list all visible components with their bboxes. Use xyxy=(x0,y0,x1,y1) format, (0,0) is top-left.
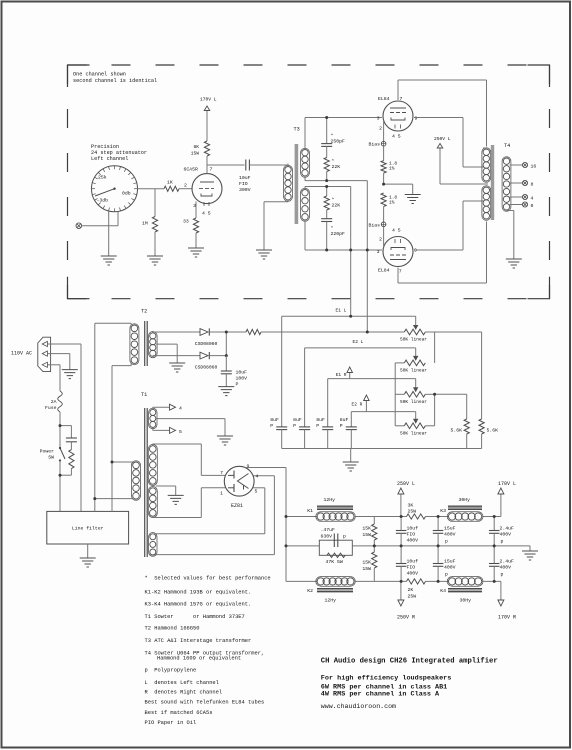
svg-text:15W: 15W xyxy=(362,532,371,538)
svg-text:25W: 25W xyxy=(408,594,417,600)
svg-text:2.4uF: 2.4uF xyxy=(500,559,515,565)
svg-text:16: 16 xyxy=(531,163,537,169)
svg-text:15W: 15W xyxy=(191,151,200,157)
svg-text:400V: 400V xyxy=(444,532,456,538)
svg-text:8uF: 8uF xyxy=(316,417,325,423)
svg-text:25k: 25k xyxy=(98,175,107,181)
svg-text:30Hy: 30Hy xyxy=(459,497,471,503)
svg-text:22K: 22K xyxy=(332,203,341,209)
svg-text:220pF: 220pF xyxy=(331,231,346,237)
svg-text:FIO: FIO xyxy=(407,565,416,571)
svg-text:110V AC: 110V AC xyxy=(11,351,32,357)
svg-text:15uF: 15uF xyxy=(444,526,456,532)
svg-text:2: 2 xyxy=(379,126,382,132)
svg-text:5: 5 xyxy=(255,489,258,495)
svg-text:EZ81: EZ81 xyxy=(231,503,243,509)
svg-text:400V: 400V xyxy=(444,565,456,571)
svg-text:.47uF: .47uF xyxy=(321,527,336,533)
svg-text:Fuse: Fuse xyxy=(45,405,57,411)
svg-text:Bias: Bias xyxy=(368,142,380,148)
svg-text:400V: 400V xyxy=(500,565,512,571)
svg-text:300V: 300V xyxy=(239,187,251,193)
svg-text:For high efficiency loudspeake: For high efficiency loudspeakers xyxy=(321,675,452,683)
svg-text:SW: SW xyxy=(48,455,54,461)
svg-text:P: P xyxy=(270,423,273,429)
svg-text:1: 1 xyxy=(220,491,223,497)
svg-text:p: p xyxy=(501,540,504,545)
svg-text:1%: 1% xyxy=(389,200,395,206)
svg-text:400V: 400V xyxy=(407,538,419,544)
svg-text:K1: K1 xyxy=(307,508,313,514)
svg-text:5.6K: 5.6K xyxy=(450,428,462,434)
svg-text:P: P xyxy=(340,423,343,429)
svg-text:250V L: 250V L xyxy=(434,136,451,142)
svg-text:47K 5W: 47K 5W xyxy=(326,559,343,565)
svg-text:T4: T4 xyxy=(504,143,510,149)
svg-text:4: 4 xyxy=(179,406,182,412)
svg-text:P: P xyxy=(293,423,296,429)
svg-text:E2 L: E2 L xyxy=(353,339,364,345)
svg-text:FIO: FIO xyxy=(407,532,416,538)
svg-text:www.chaudioroon.com: www.chaudioroon.com xyxy=(321,703,396,710)
svg-text:400V: 400V xyxy=(407,571,419,577)
svg-text:33: 33 xyxy=(183,219,189,225)
svg-text:10uF: 10uF xyxy=(239,175,251,181)
svg-text:0: 0 xyxy=(531,203,534,209)
svg-text:250V L: 250V L xyxy=(397,481,415,487)
svg-text:Bias: Bias xyxy=(368,222,380,228)
svg-text:K2: K2 xyxy=(307,588,313,594)
svg-text:*: * xyxy=(332,197,335,203)
svg-text:p: p xyxy=(343,535,346,540)
svg-text:p: p xyxy=(445,573,448,578)
svg-text:T3 ATC A&I Interstage transfor: T3 ATC A&I Interstage transformer xyxy=(145,638,252,644)
svg-text:2: 2 xyxy=(184,183,187,189)
svg-text:8K: 8K xyxy=(193,144,199,150)
svg-text:22K: 22K xyxy=(332,164,341,170)
svg-text:*: * xyxy=(331,226,334,232)
svg-text:630V: 630V xyxy=(321,534,333,540)
svg-text:7: 7 xyxy=(220,470,223,476)
svg-text:Best sound with Telefunken EL8: Best sound with Telefunken EL84 tubes xyxy=(145,699,265,705)
svg-text:4: 4 xyxy=(531,195,534,201)
svg-text:1M: 1M xyxy=(142,221,148,227)
svg-text:10uF: 10uF xyxy=(236,370,248,376)
svg-text:* Selected values for best pe: * Selected values for best performance xyxy=(145,575,271,581)
svg-text:170V L: 170V L xyxy=(200,97,217,103)
svg-text:170V R: 170V R xyxy=(498,615,516,621)
svg-text:2K: 2K xyxy=(408,587,414,593)
svg-text:FIO: FIO xyxy=(239,181,248,187)
svg-text:50K linear: 50K linear xyxy=(400,368,427,374)
svg-text:T2: T2 xyxy=(141,309,147,315)
svg-text:second channel is identical: second channel is identical xyxy=(73,78,157,84)
svg-text:L denotes Left channel: L denotes Left channel xyxy=(145,680,219,686)
svg-text:8: 8 xyxy=(531,181,534,187)
svg-text:*: * xyxy=(332,159,335,165)
svg-text:9: 9 xyxy=(415,116,418,122)
svg-text:P: P xyxy=(316,423,319,429)
svg-text:4 5: 4 5 xyxy=(392,134,401,140)
svg-text:50K linear: 50K linear xyxy=(400,337,427,343)
svg-text:3: 3 xyxy=(377,249,380,255)
svg-text:Left channel: Left channel xyxy=(91,156,128,162)
svg-text:EL84: EL84 xyxy=(378,96,390,102)
svg-text:E2 R: E2 R xyxy=(352,402,363,408)
svg-text:8uF: 8uF xyxy=(340,417,349,423)
svg-text:4: 4 xyxy=(256,474,259,480)
svg-text:E1 L: E1 L xyxy=(336,308,347,314)
svg-text:CH Audio design CH26 Integrate: CH Audio design CH26 Integrated amplifie… xyxy=(321,658,498,666)
svg-text:PIO Paper in Oil: PIO Paper in Oil xyxy=(145,720,197,726)
svg-text:Line filter: Line filter xyxy=(72,526,104,532)
svg-text:8uF: 8uF xyxy=(270,417,279,423)
svg-text:CSD08060: CSD08060 xyxy=(195,341,218,347)
svg-text:10uf: 10uf xyxy=(407,559,419,565)
svg-text:100V: 100V xyxy=(236,376,248,382)
svg-text:12Hy: 12Hy xyxy=(324,497,336,503)
svg-text:E1 R: E1 R xyxy=(336,372,347,378)
svg-text:p: p xyxy=(445,540,448,545)
svg-text:One channel shown: One channel shown xyxy=(73,72,126,78)
svg-text:15K: 15K xyxy=(362,560,371,566)
svg-text:2.4uF: 2.4uF xyxy=(500,526,515,532)
svg-text:1K: 1K xyxy=(167,180,173,186)
svg-text:9: 9 xyxy=(247,464,250,470)
svg-text:K4: K4 xyxy=(440,588,446,594)
svg-text:4 5: 4 5 xyxy=(202,211,211,217)
svg-text:CSD08060: CSD08060 xyxy=(195,365,218,371)
svg-text:3: 3 xyxy=(377,116,380,122)
svg-text:*: * xyxy=(331,133,334,139)
svg-text:p Polypropylene: p Polypropylene xyxy=(145,668,197,674)
svg-text:12Hy: 12Hy xyxy=(325,598,337,604)
svg-text:0db: 0db xyxy=(122,191,131,197)
svg-text:8uF: 8uF xyxy=(293,417,302,423)
svg-text:5: 5 xyxy=(179,429,182,435)
svg-text:7: 7 xyxy=(400,96,403,102)
svg-text:400V: 400V xyxy=(500,532,512,538)
svg-text:1%: 1% xyxy=(389,166,395,172)
svg-text:T1: T1 xyxy=(141,392,147,398)
svg-text:30Hy: 30Hy xyxy=(460,598,472,604)
svg-text:10uf: 10uf xyxy=(407,526,419,532)
svg-text:250pF: 250pF xyxy=(331,139,346,145)
svg-text:-3db: -3db xyxy=(97,198,109,204)
svg-text:15uF: 15uF xyxy=(444,559,456,565)
svg-text:50K linear: 50K linear xyxy=(400,431,427,437)
svg-text:15K: 15K xyxy=(362,526,371,532)
svg-text:4W RMS per channel in Class A: 4W RMS per channel in Class A xyxy=(321,691,440,699)
svg-text:2: 2 xyxy=(379,237,382,243)
svg-text:170V L: 170V L xyxy=(498,481,516,487)
svg-text:Best if matched 6CA5s: Best if matched 6CA5s xyxy=(145,710,213,716)
svg-text:EL84: EL84 xyxy=(378,268,390,274)
svg-text:6CA5R: 6CA5R xyxy=(184,167,199,173)
svg-text:T2 Hammond 166G50: T2 Hammond 166G50 xyxy=(145,626,200,632)
svg-text:7: 7 xyxy=(210,167,213,173)
svg-text:50K linear: 50K linear xyxy=(400,399,427,405)
svg-text:15W: 15W xyxy=(362,566,371,572)
svg-text:4 5: 4 5 xyxy=(392,228,401,234)
svg-text:P: P xyxy=(236,382,239,388)
svg-text:K3: K3 xyxy=(440,508,446,514)
svg-text:T3: T3 xyxy=(294,127,300,133)
svg-text:3K: 3K xyxy=(408,503,414,509)
svg-text:25W: 25W xyxy=(408,509,417,515)
svg-text:p: p xyxy=(501,573,504,578)
svg-text:Power: Power xyxy=(40,449,55,455)
svg-text:K1-K2 Hammond 193B or equivale: K1-K2 Hammond 193B or equivalent. xyxy=(145,589,252,595)
svg-text:2A: 2A xyxy=(51,399,57,405)
svg-text:Hammond 1609 or equivalent: Hammond 1609 or equivalent xyxy=(157,655,241,661)
svg-text:250V R: 250V R xyxy=(397,615,415,621)
svg-text:R denotes Right channel: R denotes Right channel xyxy=(145,689,223,695)
svg-text:K3-K4 Hammond 157G or equivale: K3-K4 Hammond 157G or equivalent. xyxy=(145,602,252,608)
svg-text:T1 Sowter or Hammond 373E: T1 Sowter or Hammond 373E7 xyxy=(145,614,245,620)
svg-text:5.6K: 5.6K xyxy=(487,428,499,434)
svg-text:7: 7 xyxy=(399,269,402,275)
